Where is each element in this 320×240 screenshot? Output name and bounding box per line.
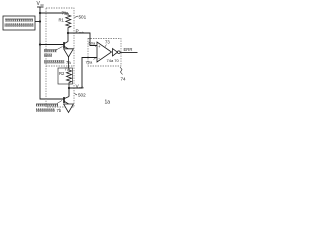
annotation text flash/memory transistor (7b) with leader [36, 101, 62, 114]
transistor 7b (TR2) [64, 88, 74, 113]
wire: block output to rail [35, 21, 40, 23]
transistor 7a (TR1) [40, 33, 73, 57]
label 74 with wavy leader [120, 67, 126, 82]
svg-text:73: 73 [105, 40, 110, 45]
wire: rail to R1 top [40, 12, 68, 14]
svg-text:71: 71 [62, 11, 67, 16]
inverter 74a [113, 49, 121, 57]
node Psub label [76, 29, 85, 35]
svg-text:cc: cc [41, 3, 45, 7]
label 70a with leader [86, 58, 96, 65]
svg-text:501: 501 [79, 14, 87, 19]
svg-text:1a: 1a [105, 100, 111, 106]
svg-text:70a: 70a [86, 60, 93, 65]
wire: rail to TR2 base [40, 98, 64, 100]
label 501 with leader [75, 14, 87, 19]
power terminal Vcc label [37, 1, 45, 7]
svg-text:74a 70: 74a 70 [107, 58, 120, 63]
svg-text:7a: 7a [66, 60, 71, 65]
wire: Vsub node to comparator - input [69, 58, 97, 89]
label 502 with leader [75, 93, 87, 98]
annotation text flash/memory (7a) with leader [44, 47, 71, 66]
svg-text:74: 74 [121, 77, 127, 82]
svg-text:7b: 7b [57, 108, 62, 113]
svg-text:R2: R2 [59, 71, 65, 76]
junction dot rail/block [39, 20, 41, 22]
svg-text:502: 502 [78, 93, 86, 98]
resistor R2 with enclosure box [58, 68, 73, 88]
power terminal bar [37, 6, 44, 8]
svg-text:R1: R1 [59, 18, 65, 23]
resistor R1 [66, 13, 71, 33]
junction dot Vsub [68, 87, 70, 89]
svg-text:50a: 50a [89, 41, 96, 46]
node Vsub label [76, 84, 85, 90]
wire: TR1 emitter to R2 [68, 57, 70, 68]
label 73 with leader [105, 40, 110, 47]
dashed divider between 501 and 502 [46, 65, 74, 67]
block: read/write reference voltage generator [3, 16, 35, 30]
junction dot rail/R1 [39, 12, 41, 14]
junction dot rail/TR1 base [39, 43, 41, 45]
label 71 with leader [62, 11, 68, 16]
dashed box 70 (comparator block) [88, 39, 121, 67]
svg-text:ERR: ERR [124, 47, 133, 52]
svg-text:sub: sub [79, 31, 84, 35]
dashed box 501/502 outline [46, 8, 74, 107]
wire: Psub node to comparator + input [68, 33, 97, 46]
label 50a with leader [89, 41, 97, 47]
wire: Vcc rail vertical [39, 7, 41, 100]
comparator 73 [97, 42, 112, 62]
wire: inverter output ERR [120, 51, 137, 53]
junction dot Psub [67, 32, 69, 34]
svg-text:+: + [98, 44, 101, 49]
